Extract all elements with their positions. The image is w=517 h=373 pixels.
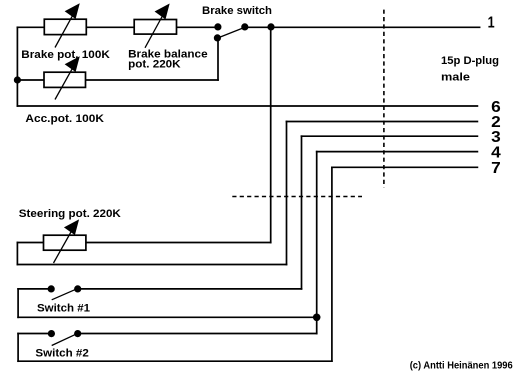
wire: switch1 row right segment (78, 288, 302, 290)
label: Brake balance pot. 220K (128, 48, 208, 70)
wire: pin 3 vertical (301, 136, 303, 289)
dashed divider vertical (15p D-plug boundary) (383, 10, 385, 188)
wire: switch2 row right segment (78, 333, 317, 335)
resistor: Steering pot wiper arrow (54, 220, 79, 263)
wire: left bus vertical (16, 27, 18, 106)
svg-text:Acc.pot. 100K: Acc.pot. 100K (25, 113, 104, 125)
wire: switch1 bottom link to pin4 node (18, 316, 317, 318)
node: brake switch input contact (214, 23, 221, 30)
svg-text:4: 4 (491, 144, 501, 161)
wire: switch1 arm (52, 290, 75, 300)
resistor: Brake balance pot body (134, 20, 176, 35)
wire: steering pot row (17, 242, 270, 244)
wire: pin 4 horizontal (317, 151, 478, 153)
wire: pin 3 horizontal (302, 135, 478, 137)
wire: pin 7 vertical (331, 167, 333, 361)
wire: pin 7 horizontal (332, 166, 478, 168)
switch: Brake switch contacts and arm (214, 23, 249, 41)
wire: steering bottom link to pin 2 (17, 264, 286, 266)
wire: pin 6 line (17, 105, 477, 107)
node: brake switch lower contact (214, 34, 221, 41)
svg-text:male: male (441, 72, 470, 84)
node: pin1 / steering junction dot (267, 23, 274, 30)
svg-text:Switch #2: Switch #2 (35, 347, 88, 359)
svg-text:Brake switch: Brake switch (202, 5, 272, 17)
resistor: Brake pot body (44, 19, 86, 34)
node: switch1 left contact (48, 285, 55, 292)
wire: top row to brake switch (17, 26, 218, 28)
wire: acc pot row (17, 79, 218, 81)
node: brake switch output contact (241, 23, 248, 30)
wire: pin 2 vertical (286, 122, 288, 265)
node: switch1 right contact (74, 285, 81, 292)
svg-text:7: 7 (491, 160, 501, 177)
wire: pin 4 vertical (316, 152, 318, 334)
wire: brake switch output to pin 1 (245, 26, 480, 28)
switch: Switch #1 (48, 285, 82, 300)
svg-text:Brake pot. 100K: Brake pot. 100K (21, 49, 110, 61)
label: 15p D-plug male (441, 55, 499, 84)
wire: riser lower switch contact to acc row (217, 38, 219, 80)
svg-text:15p D-plug: 15p D-plug (441, 55, 499, 67)
dashed divider horizontal (232, 196, 362, 198)
node: switch2 right contact (74, 330, 81, 337)
node: switch2 left contact (48, 330, 55, 337)
resistor: Steering pot body (44, 235, 86, 250)
resistor: Acc pot wiper arrow (55, 57, 79, 99)
wire: steering riser to pin1 junction (270, 27, 272, 242)
wire: steering left drop (16, 243, 18, 265)
svg-text:Switch #1: Switch #1 (37, 302, 90, 314)
wire: pin 2 horizontal (287, 121, 478, 123)
wire: switch2 left drop (17, 334, 19, 362)
svg-text:pot. 220K: pot. 220K (128, 59, 181, 71)
svg-text:Steering pot. 220K: Steering pot. 220K (19, 208, 121, 220)
wire: switch2 arm (52, 335, 75, 346)
resistor: Brake pot wiper arrow (55, 4, 79, 47)
wire: switch1 left drop (17, 289, 19, 317)
wire: switch1 row left segment (18, 288, 51, 290)
wire: switch2 bottom link to pin7 (18, 360, 332, 362)
svg-text:(c) Antti Heinänen 1996: (c) Antti Heinänen 1996 (410, 359, 513, 371)
svg-text:1: 1 (488, 14, 495, 31)
switch: Switch #2 (48, 330, 81, 346)
wire: brake switch arm (219, 28, 243, 38)
node: acc row junction on left bus (14, 76, 21, 83)
resistor: Brake balance pot wiper arrow (145, 5, 169, 48)
wire: switch2 row left segment (18, 333, 51, 335)
node: switch1-link junction on pin4 vertical (313, 314, 321, 322)
resistor: Acc pot body (44, 72, 86, 87)
